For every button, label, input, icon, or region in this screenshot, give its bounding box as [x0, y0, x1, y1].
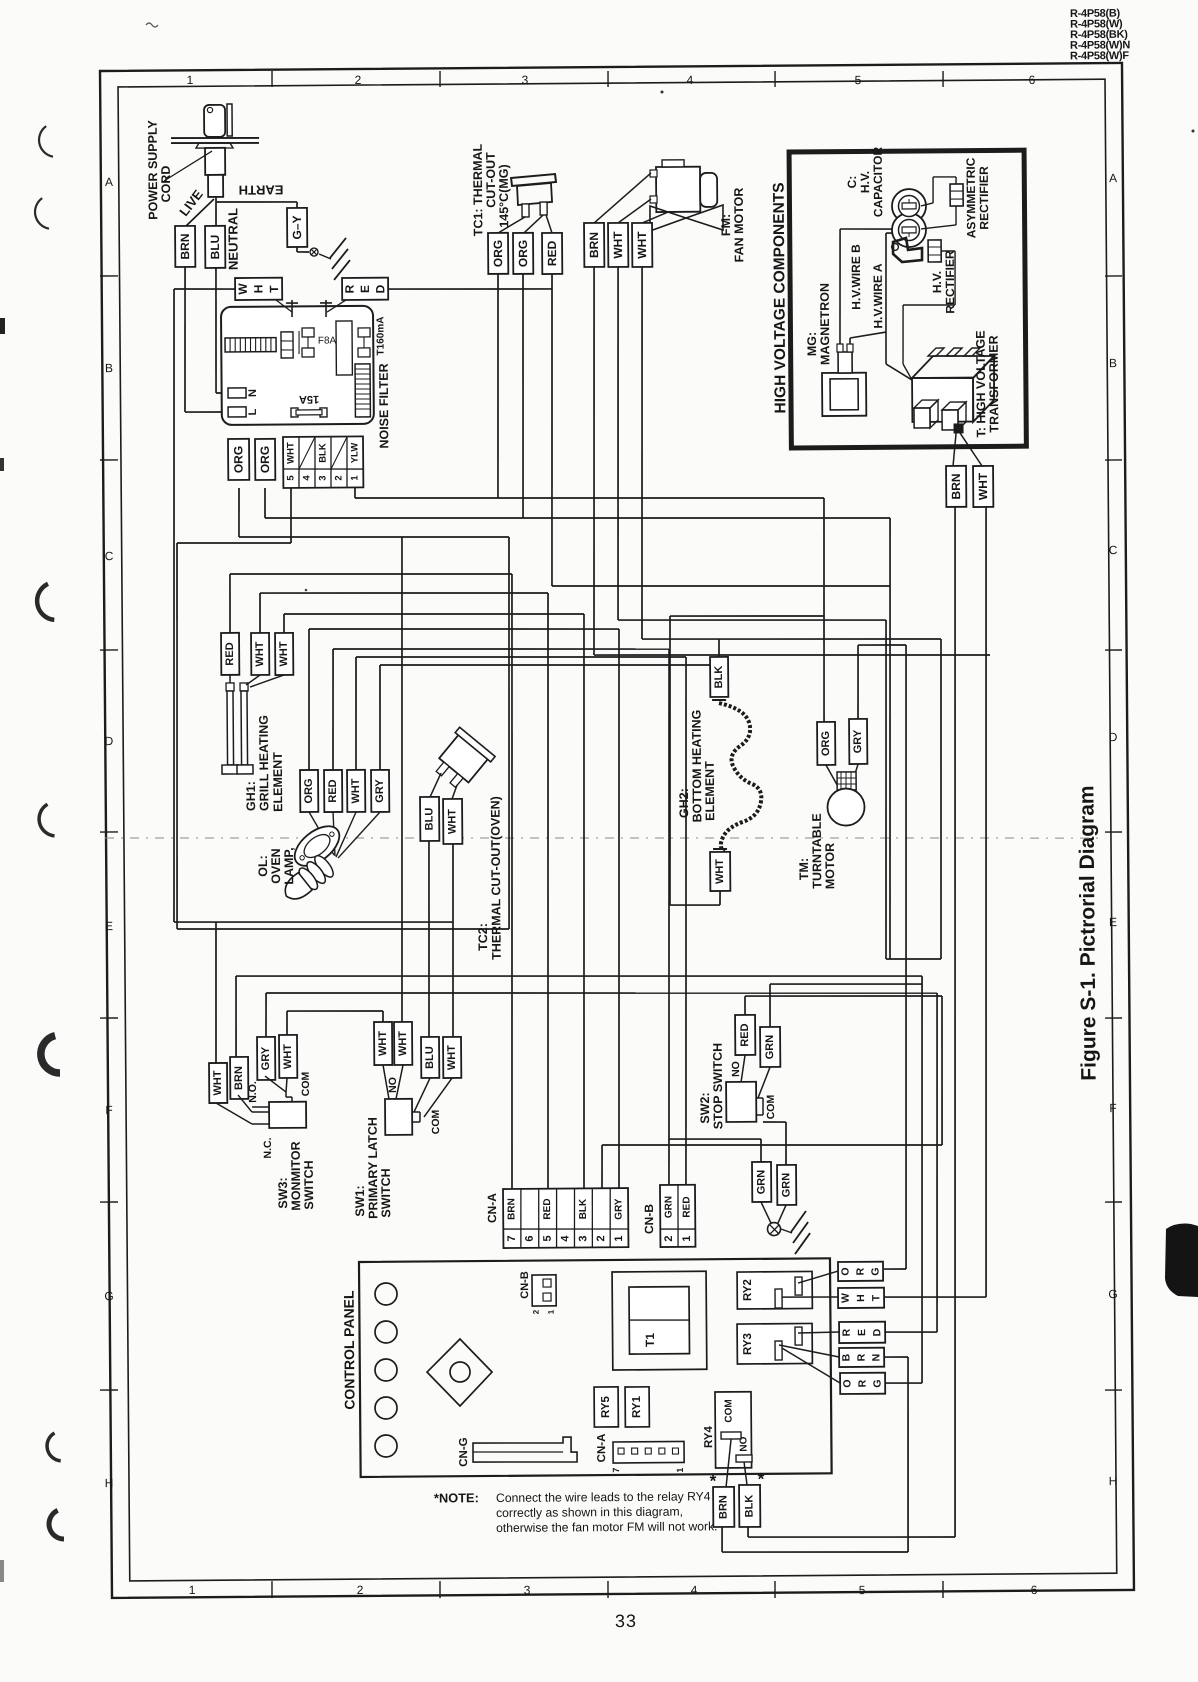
frame zone ticks top band	[271, 71, 273, 87]
svg-text:THERMAL CUT-OUT(OVEN): THERMAL CUT-OUT(OVEN)	[488, 796, 503, 960]
CN-B board connector	[532, 1275, 556, 1306]
svg-text:N.C.: N.C.	[262, 1137, 274, 1158]
RY3 wires to color boxes	[798, 1332, 839, 1333]
power plug face plate	[171, 137, 259, 138]
svg-text:W: W	[840, 1293, 852, 1303]
svg-text:A: A	[105, 175, 113, 189]
box WHT (TC2)	[443, 799, 462, 844]
svg-text:C: C	[1109, 543, 1118, 557]
svg-text:GRY: GRY	[852, 729, 864, 753]
svg-text:R: R	[856, 1353, 868, 1361]
svg-text:RED: RED	[224, 642, 236, 665]
filter L terminal	[228, 407, 246, 417]
svg-text:T: T	[870, 1294, 882, 1301]
OL lamp leads	[309, 812, 334, 855]
ground chassis symbol	[781, 1229, 792, 1233]
svg-text:4: 4	[687, 73, 694, 87]
box BLU (neutral)	[205, 226, 225, 268]
svg-text:EARTH: EARTH	[239, 182, 284, 197]
svg-text:15A: 15A	[299, 393, 319, 405]
wire SW1 WHT2 long feed	[398, 537, 406, 1022]
svg-text:4: 4	[559, 1235, 571, 1242]
earth wire to ground	[296, 247, 298, 252]
svg-text:L: L	[247, 408, 259, 415]
svg-text:R: R	[855, 1267, 867, 1275]
svg-text:B: B	[841, 1353, 853, 1361]
svg-text:1: 1	[613, 1235, 625, 1241]
svg-text:R: R	[841, 1328, 853, 1336]
filter N terminal	[228, 388, 246, 398]
svg-text:FAN MOTOR: FAN MOTOR	[732, 188, 747, 263]
svg-text:SW2:: SW2:	[698, 1092, 712, 1123]
SW1 body	[385, 1099, 412, 1135]
svg-text:WHT: WHT	[254, 641, 266, 666]
frame zone ticks left band	[100, 275, 118, 277]
SW2 leads	[741, 1055, 745, 1082]
TC2 leads	[430, 773, 441, 797]
wire ORG2 run right	[264, 488, 266, 518]
svg-text:RECTIFIER: RECTIFIER	[943, 250, 957, 314]
wire TC2 WHT down into SW1	[451, 844, 454, 1037]
svg-text:RED: RED	[327, 779, 339, 802]
svg-text:WHT: WHT	[635, 231, 649, 259]
svg-text:BLU: BLU	[424, 1046, 436, 1069]
svg-text:3: 3	[577, 1235, 589, 1241]
color box ORG2 (RY3)	[840, 1373, 885, 1394]
transformer terminal black	[954, 424, 963, 433]
svg-text:ORG: ORG	[491, 240, 505, 267]
box G-Y (earth)	[287, 208, 307, 247]
box WHT (fan second)	[632, 223, 652, 267]
box RED (GH1)	[221, 633, 239, 675]
box ORG (TC1 second)	[513, 233, 533, 274]
SW2 com step	[756, 1097, 763, 1099]
svg-text:T160mA: T160mA	[375, 317, 386, 356]
wire BLK up	[718, 639, 720, 657]
svg-text:TRANSFORMER: TRANSFORMER	[987, 335, 1002, 432]
box ORG (TC1)	[488, 233, 508, 274]
RY4 contact wires	[726, 1439, 732, 1487]
svg-text:1: 1	[187, 73, 194, 87]
TC2 body (tilted)	[428, 727, 495, 794]
box BLU (TC2)	[420, 797, 439, 841]
svg-text:CORD: CORD	[159, 166, 173, 203]
leader RED to terminal	[327, 300, 346, 312]
punch hole crescents	[39, 126, 53, 157]
GH1 leads	[229, 675, 231, 683]
svg-text:2: 2	[355, 73, 362, 87]
power cord grip	[205, 148, 225, 175]
svg-text:NEUTRAL: NEUTRAL	[225, 208, 240, 270]
svg-text:BLK: BLK	[743, 1495, 755, 1518]
svg-text:BLK: BLK	[578, 1198, 589, 1219]
GH2 terminal bottom	[713, 848, 727, 850]
frame zone ticks right band	[1105, 275, 1122, 277]
svg-text:3: 3	[317, 475, 328, 480]
SW1 com step	[412, 1111, 420, 1113]
svg-text:CONTROL PANEL: CONTROL PANEL	[341, 1290, 358, 1410]
svg-text:D: D	[373, 284, 387, 293]
svg-text:WHT: WHT	[446, 1045, 458, 1070]
TM leads	[826, 765, 840, 790]
wire YLW pin1 run to TM ORG	[354, 488, 356, 498]
svg-text:BLU: BLU	[423, 808, 435, 831]
punch hole bold	[41, 1036, 60, 1073]
svg-text:T1: T1	[643, 1333, 657, 1347]
svg-text:WHT: WHT	[446, 809, 458, 834]
svg-text:RY3: RY3	[742, 1333, 754, 1355]
color box WHT (RY2)	[838, 1288, 884, 1308]
svg-text:5: 5	[285, 475, 296, 481]
HV capacitor C	[892, 189, 926, 223]
svg-text:E: E	[105, 919, 113, 933]
box GRN (ground 1)	[752, 1162, 771, 1202]
svg-text:HIGH VOLTAGE COMPONENTS: HIGH VOLTAGE COMPONENTS	[771, 182, 790, 413]
RY2 wires to color boxes	[798, 1271, 838, 1283]
svg-text:2: 2	[663, 1235, 675, 1241]
power plug prong	[227, 104, 232, 136]
wire neutral to BLU	[215, 197, 217, 226]
svg-text:GRN: GRN	[663, 1196, 674, 1218]
svg-text:2: 2	[595, 1235, 607, 1241]
filter capacitor pair B	[358, 328, 370, 337]
filter tall coil (hatched)	[355, 364, 370, 417]
svg-text:W: W	[236, 283, 250, 295]
frame zone ticks bottom band	[271, 1581, 273, 1598]
svg-text:BLK: BLK	[317, 443, 328, 463]
svg-text:RED: RED	[681, 1196, 692, 1217]
transformer leads to BRN WHT	[953, 433, 957, 466]
svg-text:ELEMENT: ELEMENT	[703, 761, 717, 821]
svg-text:correctly as shown in this: correctly as shown in this diagram,	[496, 1505, 683, 1520]
svg-text:H: H	[1109, 1474, 1118, 1488]
small specks	[146, 23, 158, 27]
wire OL RED feed	[332, 649, 334, 770]
svg-text:B: B	[1109, 356, 1117, 370]
wire GRN2 feed	[785, 1122, 788, 1165]
wire ORG1 loop	[238, 488, 241, 537]
svg-text:1: 1	[681, 1235, 693, 1241]
frame outer border	[100, 63, 1134, 1598]
svg-text:NO: NO	[730, 1061, 742, 1077]
box BRN (SW3)	[230, 1057, 248, 1099]
wire WHT long left run	[174, 288, 235, 291]
fan motor body	[656, 167, 700, 212]
svg-text:O: O	[842, 1379, 854, 1387]
svg-text:E: E	[856, 1329, 868, 1336]
svg-text:R: R	[343, 284, 357, 293]
svg-text:COM: COM	[765, 1095, 777, 1120]
svg-text:ORG: ORG	[303, 778, 315, 803]
ground terminal circle	[767, 1222, 780, 1235]
wire GH2 WHT loop to TM	[719, 891, 721, 905]
svg-text:ELEMENT: ELEMENT	[271, 752, 285, 812]
svg-text:7: 7	[506, 1235, 518, 1241]
wire CN-A pin2 feed	[601, 1145, 604, 1189]
SW3 leads	[216, 1103, 252, 1125]
TM motor circle	[827, 788, 864, 825]
wire SW2 RED feed	[744, 996, 746, 1015]
box RED (SW2)	[735, 1015, 755, 1055]
connector CN-A board	[613, 1441, 684, 1463]
box ORG (OL)	[300, 770, 318, 812]
wire SW2 GRN feed	[769, 984, 772, 1027]
fan motor leads	[594, 173, 652, 223]
wire BRN colorbox to RY4 BRN	[884, 1356, 908, 1358]
svg-text:RY1: RY1	[631, 1395, 643, 1418]
GH1 element bars	[226, 683, 234, 691]
filter coil 1 (hatched)	[225, 338, 276, 352]
box BLK (GH2)	[710, 657, 728, 697]
svg-text:STOP SWITCH: STOP SWITCH	[711, 1043, 726, 1129]
transformer bottom tabs	[914, 408, 930, 428]
black scan blob right edge	[1165, 1224, 1198, 1297]
svg-text:MAGNETRON: MAGNETRON	[818, 283, 833, 365]
svg-text:RED: RED	[545, 240, 559, 266]
svg-text:WHT: WHT	[611, 231, 625, 259]
svg-text:SWITCH: SWITCH	[302, 1160, 316, 1209]
svg-text:MOTOR: MOTOR	[823, 843, 837, 889]
HV rectifier wire loop	[941, 250, 955, 252]
svg-text:BRN: BRN	[717, 1495, 729, 1519]
box BRN (fan)	[584, 223, 604, 267]
box BLU (SW1)	[421, 1037, 439, 1078]
box RED (TC1)	[542, 233, 562, 274]
svg-text:TC2:: TC2:	[476, 923, 490, 951]
box WHT stacked (filter lead)	[235, 278, 282, 300]
svg-text:6: 6	[1031, 1583, 1038, 1597]
color box BRN (RY3)	[839, 1348, 884, 1367]
wire BRN transformer long down to BLK	[947, 507, 963, 1537]
box WHT (transformer)	[973, 466, 993, 507]
svg-text:*NOTE:: *NOTE:	[434, 1490, 479, 1505]
wire TC2 BLU to SW1	[427, 841, 430, 1037]
svg-text:7: 7	[611, 1468, 621, 1473]
svg-text:BRN: BRN	[233, 1066, 245, 1090]
svg-text:2: 2	[357, 1583, 364, 1597]
filter capacitor pair A	[302, 328, 314, 337]
wire RED long right run	[388, 288, 552, 290]
svg-text:2: 2	[333, 475, 344, 480]
svg-text:RED: RED	[739, 1023, 751, 1046]
svg-text:Connect the wire leads to: Connect the wire leads to the relay RY4	[496, 1489, 711, 1505]
wire BRN to L terminal	[184, 267, 186, 412]
box BLK (RY4)	[739, 1485, 760, 1527]
svg-text:F: F	[105, 1103, 112, 1117]
svg-text:COM: COM	[300, 1071, 312, 1096]
box GRY (TM)	[849, 719, 867, 764]
box GRY (OL)	[371, 770, 389, 812]
svg-text:CN-G: CN-G	[458, 1437, 470, 1467]
transformer top tabs	[928, 348, 944, 356]
wire bundle GH1 RED feed	[229, 574, 232, 633]
color box RED (RY3)	[839, 1322, 885, 1343]
svg-text:E: E	[1109, 915, 1117, 929]
dash-dot centerline	[105, 830, 1100, 846]
svg-text:ORG: ORG	[231, 446, 245, 473]
svg-text:TM:: TM:	[797, 858, 811, 880]
svg-text:N: N	[871, 1354, 883, 1362]
box WHT (OL)	[347, 770, 365, 812]
svg-text:otherwise the fan motor FM wil: otherwise the fan motor FM will not work…	[496, 1519, 718, 1535]
wire TC1 RED down	[550, 274, 555, 586]
svg-text:GH1:: GH1:	[244, 781, 258, 811]
svg-text:CN-A: CN-A	[596, 1434, 608, 1463]
transformer T 3D body	[912, 378, 973, 422]
control panel diamond	[427, 1339, 493, 1407]
svg-text:H: H	[855, 1294, 867, 1302]
svg-text:2: 2	[532, 1309, 541, 1314]
svg-text:GRILL HEATING: GRILL HEATING	[257, 715, 272, 811]
wire SW3 WHT2 horizontal	[287, 1010, 383, 1011]
ground terminal circle	[310, 248, 318, 256]
strip diagonal slashes	[299, 437, 315, 469]
chassis ground symbol	[319, 254, 331, 259]
svg-text:O: O	[840, 1267, 852, 1275]
svg-text:SW3:: SW3:	[276, 1177, 290, 1208]
svg-text:GRY: GRY	[374, 779, 386, 803]
svg-text:C: C	[105, 549, 114, 563]
svg-text:WHT: WHT	[397, 1031, 409, 1056]
svg-text:1: 1	[547, 1309, 556, 1314]
svg-text:WHT: WHT	[976, 472, 990, 500]
svg-text:D: D	[871, 1328, 883, 1336]
svg-text:3: 3	[522, 73, 529, 87]
svg-text:B: B	[105, 361, 113, 375]
svg-text:N.O.: N.O.	[247, 1081, 259, 1103]
svg-text:F8A: F8A	[318, 335, 337, 346]
svg-text:CN-A: CN-A	[485, 1193, 499, 1223]
relay RY5	[594, 1387, 618, 1427]
svg-text:SWITCH: SWITCH	[379, 1168, 393, 1217]
box RED stacked (filter lead)	[342, 278, 388, 300]
filter relay blank rect	[336, 321, 352, 375]
svg-text:4: 4	[691, 1583, 698, 1597]
wire BLK RY4 down	[747, 1527, 749, 1537]
frame inner border	[118, 79, 1117, 1581]
svg-text:ORG: ORG	[258, 446, 272, 473]
box WHT (SW1 b)	[394, 1022, 412, 1065]
control panel outline	[359, 1258, 832, 1477]
svg-text:G: G	[104, 1289, 113, 1303]
svg-text:CN-B: CN-B	[519, 1271, 531, 1299]
power plug body	[204, 105, 225, 137]
svg-text:145°C(MG): 145°C(MG)	[497, 164, 511, 227]
leader WHT to terminal	[276, 300, 292, 312]
svg-text:WHT: WHT	[350, 778, 362, 803]
svg-text:H.V.WIRE B: H.V.WIRE B	[849, 244, 864, 310]
relay RY4	[715, 1392, 752, 1468]
svg-text:BRN: BRN	[506, 1198, 517, 1220]
svg-text:H: H	[105, 1476, 114, 1490]
svg-text:G: G	[1108, 1287, 1117, 1301]
noise filter box	[221, 306, 374, 425]
svg-text:COM: COM	[723, 1399, 734, 1422]
svg-text:BRN: BRN	[178, 233, 192, 259]
svg-text:RECTIFIER: RECTIFIER	[977, 166, 991, 230]
svg-text:A: A	[1109, 171, 1117, 185]
asymmetric rectifier body	[950, 184, 963, 206]
wire live to BRN	[186, 199, 214, 226]
CN-A connector table	[503, 1188, 628, 1248]
svg-text:N: N	[247, 389, 259, 397]
svg-text:LAMP,: LAMP,	[282, 847, 296, 884]
color box ORG (RY2)	[838, 1262, 883, 1281]
svg-text:CN-B: CN-B	[642, 1204, 656, 1234]
svg-text:BLU: BLU	[208, 235, 222, 260]
leader line to plug	[164, 151, 213, 181]
box ORG (filter out 1)	[228, 439, 249, 480]
wire earth run	[216, 201, 297, 202]
svg-text:D: D	[105, 734, 114, 748]
svg-text:R: R	[857, 1379, 869, 1387]
relay RY3	[737, 1323, 812, 1364]
svg-text:1: 1	[675, 1468, 685, 1473]
box ORG (TM)	[817, 722, 835, 765]
svg-text:G: G	[870, 1267, 882, 1275]
connector CN-G	[473, 1437, 577, 1463]
box GRN (ground 2)	[777, 1165, 796, 1205]
svg-text:RY5: RY5	[600, 1395, 612, 1418]
GH2 terminal top	[712, 699, 726, 701]
svg-text:RY4: RY4	[703, 1425, 715, 1448]
wire bundle GH1 WHT2 feed	[283, 614, 285, 633]
svg-text:WHT: WHT	[714, 859, 726, 884]
filter part small stack	[281, 332, 293, 358]
svg-text:WHT: WHT	[377, 1031, 389, 1056]
HV wire A run	[849, 338, 851, 344]
wire bundle GH1 WHT feed	[259, 593, 262, 633]
box WHT (SW1 a)	[374, 1022, 392, 1065]
HV wire B run	[839, 229, 841, 344]
box WHT (SW3)	[209, 1063, 227, 1103]
box GRN (SW2)	[760, 1027, 780, 1067]
svg-text:4: 4	[301, 475, 312, 481]
TM gearbox hatched	[837, 772, 856, 790]
svg-text:D: D	[1109, 730, 1118, 744]
svg-text:F: F	[1109, 1101, 1116, 1115]
svg-text:GRY: GRY	[613, 1198, 624, 1220]
svg-text:ORG: ORG	[820, 731, 832, 756]
svg-text:T: T	[267, 285, 281, 293]
CN-B connector table	[660, 1185, 695, 1247]
fuse 15A symbol	[291, 408, 298, 417]
magnetron terminals	[837, 344, 843, 352]
svg-text:RY2: RY2	[742, 1279, 754, 1301]
ground leads	[761, 1202, 771, 1223]
wire TC1 ORG2 down	[521, 274, 525, 518]
HV rectifier body	[893, 238, 922, 262]
svg-text:R-4P58(W)F: R-4P58(W)F	[1070, 50, 1129, 62]
svg-text:MG:: MG:	[805, 332, 819, 356]
control panel buttons	[375, 1283, 397, 1305]
svg-text:1: 1	[189, 1583, 196, 1597]
svg-text:1: 1	[349, 475, 360, 481]
box BRN (live)	[175, 226, 195, 267]
svg-text:6: 6	[1029, 73, 1036, 87]
svg-text:BLK: BLK	[713, 666, 725, 689]
svg-text:GRN: GRN	[755, 1170, 767, 1195]
GH2 coil	[719, 703, 762, 852]
svg-text:WHT: WHT	[212, 1070, 224, 1095]
box WHT2 (GH1)	[275, 633, 293, 675]
box GRY (SW3)	[257, 1037, 275, 1080]
box WHT (GH1)	[251, 633, 269, 675]
svg-text:G–Y: G–Y	[290, 215, 304, 239]
noise filter top terminals	[291, 300, 293, 317]
svg-text:G: G	[872, 1379, 884, 1387]
box WHT2 (SW3)	[279, 1035, 297, 1078]
